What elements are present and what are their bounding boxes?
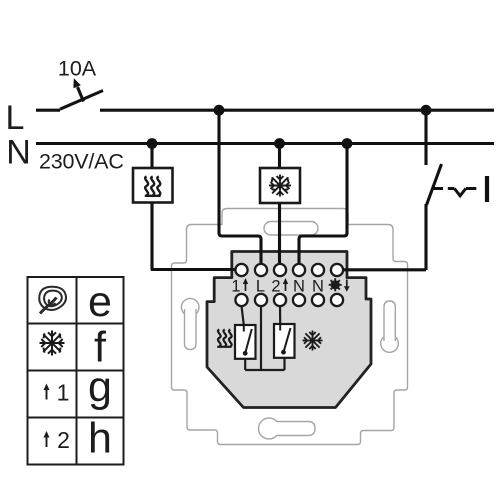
external switch S2 blade	[427, 164, 442, 205]
svg-text:h: h	[88, 415, 112, 463]
insert body (gray octagon block)	[207, 252, 371, 408]
wire: L line	[36, 109, 494, 112]
wire: relay K1 to common bus	[244, 359, 246, 370]
svg-text:e: e	[88, 278, 112, 326]
svg-text:N: N	[312, 278, 324, 296]
wire: lamp terminal to external switch	[343, 268, 426, 271]
frame left keyhole slot	[181, 298, 199, 316]
svg-text:N: N	[293, 278, 305, 296]
frame right keyhole slot	[381, 335, 399, 353]
fan load box E2	[260, 168, 300, 203]
svg-text:10A: 10A	[58, 57, 97, 81]
legend table frame	[28, 277, 124, 465]
lamp down arrow	[346, 280, 348, 288]
breaker switch blade 10A	[60, 91, 103, 110]
lamp symbol label	[329, 278, 342, 291]
legend arrow 1	[46, 387, 48, 400]
wire: fan box to terminal 2	[278, 203, 281, 264]
frame top pill slot	[264, 222, 318, 236]
svg-text:L: L	[6, 99, 25, 137]
frame outline of flush-mount insert	[172, 209, 408, 445]
switch actuator dashed linkage	[434, 187, 477, 190]
frame bottom keyhole slot	[259, 418, 280, 439]
wire: fan branch down from N	[278, 144, 281, 169]
svg-text:1: 1	[231, 278, 240, 296]
relay contact K2	[274, 324, 295, 358]
legend arrow 2	[46, 435, 48, 448]
legend snowflake symbol	[40, 331, 65, 356]
svg-text:2: 2	[57, 427, 70, 453]
upper terminal circles	[235, 264, 343, 276]
junction node on N at x347	[342, 138, 353, 149]
svg-text:g: g	[88, 363, 112, 411]
wire: N feed down to terminal N	[299, 144, 347, 265]
wire: terminal 1 to relay K1	[242, 306, 244, 325]
wire: heater branch down from N	[150, 144, 153, 169]
svg-text:N: N	[6, 134, 31, 172]
wire: L feed down to terminal L	[219, 110, 261, 264]
wire: heater box to terminal 1	[152, 203, 236, 270]
junction node on N at x152	[147, 138, 158, 149]
heater symbol in box	[145, 177, 161, 196]
wire: N line	[36, 142, 494, 145]
relay contact K1	[235, 325, 256, 359]
svg-text:2: 2	[271, 278, 280, 296]
junction node on L at x426	[421, 105, 432, 116]
svg-text:1: 1	[57, 380, 70, 406]
wire: common bus	[245, 369, 284, 371]
breaker arrow	[78, 87, 84, 102]
external switch S2 upper lead	[424, 110, 427, 165]
snowflake symbol in fan box	[269, 175, 291, 197]
lower terminal circles	[235, 294, 343, 306]
svg-text:L: L	[256, 278, 265, 296]
legend leaf symbol	[39, 287, 66, 314]
wire: terminal 2 to relay K2	[279, 306, 281, 324]
wire: relay K2 to common bus	[283, 358, 285, 370]
junction node on L at x219	[214, 105, 225, 116]
wire: terminal L down to common bus	[260, 306, 262, 370]
svg-text:230V/AC: 230V/AC	[39, 150, 124, 174]
heating symbol on insert	[217, 330, 231, 347]
switch operator bar	[485, 176, 489, 202]
junction node on N at x279.5	[274, 138, 285, 149]
external switch S2 lower lead	[424, 204, 427, 270]
heater load box E1	[133, 168, 173, 203]
snowflake symbol on insert	[303, 331, 323, 351]
